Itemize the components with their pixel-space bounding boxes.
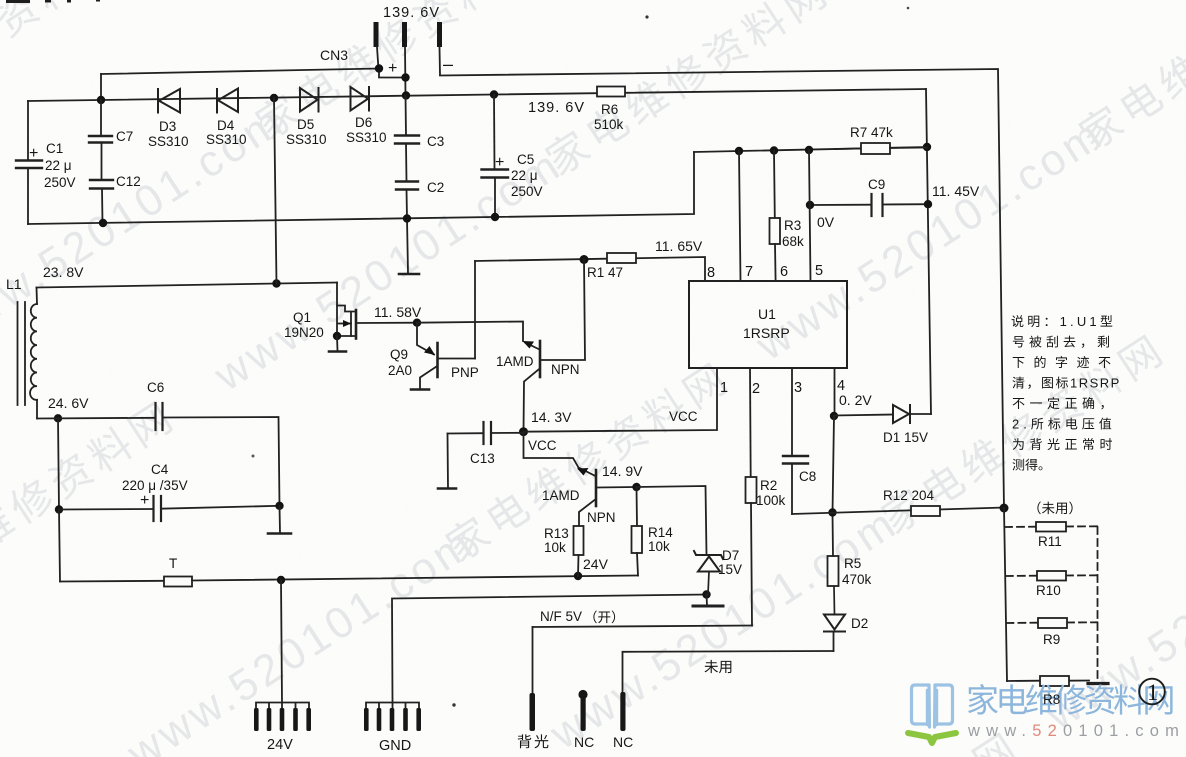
logo green ribbon: [908, 733, 956, 743]
node C4 left: [55, 505, 63, 513]
resistor R1 47: [607, 253, 636, 263]
wire backlight riser: [532, 627, 534, 693]
node C4 right: [275, 502, 283, 510]
wire 24.6V rail through C6: [37, 417, 156, 420]
node pin4 0.2V: [830, 412, 838, 420]
wire 14.9V to D7: [637, 486, 707, 555]
diode D6 SS310: [351, 87, 370, 111]
node 14.3V VCC: [519, 427, 528, 436]
wire VCC rail to U1 pin1: [524, 368, 718, 432]
diode D7 15V zener: [694, 551, 723, 595]
wire Q9 collector lead: [420, 367, 437, 389]
wire NC2 riser: [623, 651, 834, 692]
diode D1 15V: [893, 405, 910, 423]
wire D4-D5 junction drop to 23.8V rail: [274, 98, 277, 284]
capacitor C6: [156, 403, 163, 430]
node feed at pin5: [805, 146, 813, 154]
wire 24V connector drop: [281, 580, 282, 702]
wire Q9 emitter lead: [417, 323, 434, 355]
wire unused-bank left riser: [1004, 508, 1007, 681]
connector 24V comb: [254, 703, 311, 732]
logo text jiadian weixiu ziliao wang: [968, 684, 1173, 715]
wire D1 to right drop: [910, 413, 931, 415]
wire C4 right to ground: [279, 506, 282, 533]
node ground rail at D7: [702, 590, 710, 598]
connector CN3 pin 2: [402, 22, 407, 95]
note text block line 8: [1012, 459, 1042, 471]
connector CN3 pin 1: [374, 22, 379, 69]
capacitor C1: [16, 101, 42, 224]
node 23.8V rail at x275: [272, 279, 280, 287]
node 11.58V: [413, 319, 421, 327]
node 0V at pin5 line: [806, 201, 814, 209]
wire Q9 base riser: [474, 261, 476, 359]
capacitor C12: [90, 180, 113, 223]
ground symbol below D7: [693, 595, 723, 607]
wire R6 output drop: [926, 89, 931, 414]
transistor Q9 2A0 base bar: [436, 343, 439, 377]
node T rail 24V branch: [277, 576, 285, 584]
wire 11.58V to 1AMD emitter drop: [417, 322, 523, 342]
capacitor C7: [89, 100, 112, 180]
scan speck 4: [252, 455, 255, 458]
wire GND connector riser: [392, 595, 707, 703]
note text block line 3: [1013, 356, 1111, 368]
ground below C13: [438, 487, 456, 490]
node T rail R13: [574, 572, 582, 580]
logo book icon: [912, 685, 953, 727]
node 24.6V: [54, 414, 62, 422]
capacitor C3: [395, 96, 419, 182]
op-amp/controller U1 1RSRP box: [689, 281, 847, 368]
wire unused-bank right dashed riser: [1097, 527, 1099, 678]
node main rail D4-D5: [270, 94, 278, 102]
wire 11.65V rail: [475, 257, 705, 281]
wire R14 bottom: [637, 553, 638, 576]
node pin2 junction: [401, 73, 409, 81]
wire plus rail top: [101, 69, 406, 78]
node main rail at C5: [490, 90, 498, 98]
wire left riser 24.6V to C4: [58, 418, 59, 509]
wire 1AMD upper collector lead: [524, 370, 539, 432]
resistor R10: [1037, 571, 1066, 581]
wire Q1 drain to 11.58V node: [356, 322, 417, 324]
label backlight (CJK): [518, 734, 549, 748]
capacitor C8: [783, 456, 808, 514]
wire main rectifier rail: [28, 89, 926, 101]
node 11.65V at R1 left: [580, 255, 589, 264]
wire pin5 drop: [809, 150, 811, 281]
capacitor C5: [482, 95, 509, 217]
wire T rail: [60, 580, 164, 583]
resistor R9: [1038, 618, 1067, 628]
diode D3 SS310: [158, 89, 180, 113]
capacitor C4 220u35V: [154, 496, 280, 521]
termination bar below dashed riser: [1088, 682, 1108, 685]
wire R9 row dashed: [1006, 621, 1097, 624]
wire T rail right: [192, 576, 638, 581]
capacitor C13: [448, 422, 524, 444]
wire C13 left to ground: [447, 434, 450, 489]
node bus at C12: [99, 219, 107, 227]
note text block line 6: [1012, 417, 1111, 432]
resistor R13 10k: [574, 526, 584, 555]
circled number 1: [1139, 679, 1165, 705]
wire R8 row solid: [1007, 680, 1089, 683]
inductor L1 winding: [30, 304, 37, 400]
node plus junction: [375, 64, 383, 72]
resistor R5 470k: [828, 556, 839, 586]
capacitor C2: [396, 182, 418, 219]
resistor R3 68k: [770, 151, 781, 282]
wire R14 top: [636, 487, 639, 526]
wire bottom bus: [28, 152, 694, 224]
resistor R14 10k: [632, 526, 643, 553]
transistor 1AMD upper npn base bar: [539, 341, 542, 377]
node feed at R3: [770, 146, 778, 154]
node main rail at C3: [402, 91, 410, 99]
transistor 1AMD upper emitter lead with arrow: [523, 341, 539, 349]
resistor R6 510k: [597, 87, 625, 97]
connector NC pin 1: [578, 690, 587, 731]
wire pin7 drop: [739, 151, 741, 281]
resistor R2 100k: [746, 477, 757, 503]
label unused D2 (CJK): [704, 660, 731, 673]
node feed at pin7: [735, 147, 743, 155]
wire D2 bottom lead: [833, 633, 835, 652]
wire 1AMD upper base lead: [541, 260, 585, 361]
scan speck 1: [645, 15, 648, 18]
wire C4 row left: [59, 508, 154, 511]
node C9 right: [924, 200, 932, 208]
wire pin4 node to D1: [834, 415, 893, 416]
note text block line 5: [1013, 397, 1104, 409]
wire 23.8V rail: [37, 283, 338, 288]
wire C2 to ground: [407, 219, 408, 274]
connector GND comb: [364, 703, 421, 732]
wire U1 feed rail: [694, 147, 927, 152]
connector NC pin 2: [620, 692, 625, 731]
wire Q9 base lead: [439, 358, 476, 360]
diode D5 SS310: [300, 88, 319, 112]
note text block line 1: [1012, 314, 1113, 329]
transistor 1AMD lower emitter lead with arrow: [524, 432, 595, 476]
connector backlight pin: [530, 693, 536, 731]
resistor R11: [1036, 522, 1066, 532]
wire pin4 node down to R12 rail: [833, 416, 835, 513]
diode D4 SS310: [217, 89, 238, 113]
transistor Q1 19N20 mosfet: [329, 283, 356, 352]
wire minus rail to right edge: [440, 69, 1004, 509]
inductor L1 core lines: [18, 302, 26, 405]
label unused bank (CJK): [1037, 501, 1072, 514]
transistor 1AMD lower npn base bar: [595, 470, 598, 506]
scan speck 3: [452, 703, 455, 706]
label N/F kai (CJK parens): [593, 610, 615, 623]
diode D2: [824, 586, 845, 632]
wire N/F rail: [533, 626, 753, 628]
fuse T: [164, 577, 192, 587]
node R12 rail right end: [1000, 504, 1009, 513]
wire 1AMD lower collector lead: [579, 500, 595, 526]
scan noise overlay: [0, 0, 1, 1]
note text block line 2: [1013, 336, 1109, 348]
wire L1 bottom lead: [36, 400, 38, 419]
wire U1 pin2 drop to R2: [749, 368, 752, 477]
node main rail at C7: [97, 96, 105, 104]
wire R13 bottom: [577, 555, 580, 576]
transistor Q9 2A0 arrowhead: [424, 346, 435, 355]
ground below C2: [399, 273, 419, 276]
wire 1AMD lower base lead: [597, 486, 637, 489]
resistor R12 204: [911, 506, 940, 516]
node bus at C5: [491, 213, 499, 221]
note text block line 4: [1012, 376, 1120, 391]
scan corner artifact: [6, 0, 100, 3]
note text block line 7: [1013, 438, 1112, 450]
ground below Q9: [411, 388, 429, 391]
capacitor C9: [810, 194, 928, 216]
wire left riser C4 to T rail: [59, 510, 60, 582]
node bus at C2: [403, 214, 411, 222]
resistor R7 47k: [835, 143, 927, 154]
node R12 rail at R5: [828, 508, 836, 516]
wire U1 pin3 drop to C8: [791, 368, 793, 456]
wire L1 top lead: [36, 288, 39, 305]
wire R10 row dashed: [1006, 574, 1098, 577]
ground below C4 right: [268, 532, 291, 535]
wire left drop from plus rail: [100, 74, 102, 99]
node feed at R7 right: [923, 143, 931, 151]
scan speck 2: [907, 7, 910, 10]
wire C6 right to down elbow: [163, 417, 280, 506]
connector CN3 pin 3: [437, 22, 442, 75]
wire R2 to N/F rail: [751, 503, 752, 626]
wire U1 pin4 drop: [834, 368, 836, 416]
wire R5 top to R12 rail node: [832, 513, 835, 556]
node 14.9V: [632, 483, 640, 491]
resistor R8: [1040, 676, 1069, 686]
wire R11 row dashed: [1005, 525, 1098, 528]
logo url text: [967, 722, 1185, 740]
wire R12 rail: [792, 508, 1004, 515]
